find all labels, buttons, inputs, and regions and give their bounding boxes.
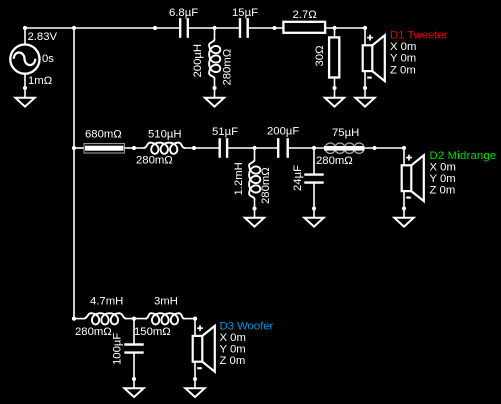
label V1 impedance 1mΩ	[28, 75, 52, 87]
node junction D3 corner	[193, 317, 197, 321]
svg-text:680mΩ: 680mΩ	[85, 129, 122, 141]
wire C5 stem bottom	[313, 183, 315, 218]
svg-text:200µF: 200µF	[267, 126, 299, 138]
node junction bottom corner	[72, 317, 76, 321]
wire mid rail segment 3	[185, 147, 220, 149]
label L3 resistance 280mΩ	[260, 167, 272, 204]
svg-text:2.7Ω: 2.7Ω	[293, 9, 317, 21]
svg-text:75µH: 75µH	[332, 127, 359, 139]
svg-text:6.8µF: 6.8µF	[169, 7, 198, 19]
svg-text:510µH: 510µH	[148, 129, 182, 141]
wire R2 stem bottom	[334, 78, 336, 98]
node junction V1 ground	[23, 86, 27, 90]
svg-text:24µF: 24µF	[292, 165, 304, 191]
label L6 resistance 150mΩ	[134, 326, 171, 338]
wire mid rail segment 2	[125, 147, 145, 149]
label R3 value 680mΩ	[85, 129, 122, 141]
svg-text:280mΩ: 280mΩ	[75, 326, 112, 338]
wire L1 stem bottom	[214, 78, 216, 98]
label L2 resistance 280mΩ	[136, 155, 173, 167]
ground below C6	[124, 388, 143, 397]
label C4 value 200µF	[267, 126, 299, 138]
svg-text:280mΩ: 280mΩ	[222, 49, 234, 86]
label C1 value 6.8µF	[169, 7, 198, 19]
wire D2 drop	[403, 148, 405, 166]
node junction D3 ground	[193, 377, 197, 381]
label D1 Y position	[390, 53, 416, 65]
node junction L2-C3	[192, 146, 196, 150]
node junction C1-L1	[212, 26, 216, 30]
wire V1 stem top	[24, 28, 26, 45]
ground below R2	[325, 98, 344, 107]
capacitor C4 200µF	[278, 138, 288, 158]
wire main feed vertical	[73, 28, 75, 319]
node junction R3-L2	[132, 146, 136, 150]
capacitor C6 100µF	[124, 345, 143, 353]
node junction L3 ground	[252, 206, 256, 210]
svg-text:2.83V: 2.83V	[28, 31, 58, 43]
node junction D2 ground	[402, 206, 406, 210]
label D3 X position	[220, 332, 246, 344]
capacitor C3 51µF	[220, 138, 227, 158]
ground below L3	[245, 218, 264, 227]
wire mid rail segment 1	[74, 147, 84, 149]
label L4 value 75µH	[332, 127, 359, 139]
svg-text:1mΩ: 1mΩ	[28, 75, 52, 87]
label D2 Midrange	[430, 150, 497, 162]
label R1 value 2.7Ω	[293, 9, 317, 21]
wire D2 stem bottom	[403, 191, 405, 218]
svg-text:Z 0m: Z 0m	[220, 355, 246, 367]
label C3 value 51µF	[212, 126, 238, 138]
node wire end before C1	[153, 26, 157, 30]
svg-text:D1 Tweeter: D1 Tweeter	[390, 30, 448, 42]
svg-text:280mΩ: 280mΩ	[316, 155, 353, 167]
capacitor C1 6.8µF	[180, 18, 188, 38]
inductor L4 75µH with series resistance	[324, 143, 364, 153]
svg-text:Y 0m: Y 0m	[220, 344, 246, 356]
label L4 resistance 280mΩ	[316, 155, 353, 167]
svg-text:Z 0m: Z 0m	[430, 184, 456, 196]
resistor R3 680mΩ	[84, 144, 125, 153]
inductor L1 200µH	[209, 40, 220, 79]
node junction L4-D2	[372, 146, 376, 150]
svg-text:280mΩ: 280mΩ	[136, 155, 173, 167]
node junction mid feed	[72, 146, 76, 150]
voltage source V1	[10, 45, 39, 74]
label V1 delay 0s	[42, 53, 54, 65]
svg-text:D3 Woofer: D3 Woofer	[220, 321, 274, 333]
svg-text:X 0m: X 0m	[390, 41, 416, 53]
node junction feed	[72, 26, 76, 30]
inductor L6 3mH	[146, 313, 184, 324]
wire D3 stem bottom	[194, 362, 196, 388]
node junction D1 top	[363, 26, 367, 30]
wire mid rail segment 5	[288, 147, 324, 149]
label L5 value 4.7mH	[90, 296, 123, 308]
label V1 value 2.83V	[28, 31, 58, 43]
resistor R2 30Ω	[329, 37, 339, 77]
speaker D1	[363, 35, 385, 81]
node junction L1 ground	[212, 86, 216, 90]
inductor L3 1.2mH	[249, 160, 260, 199]
wire L3 stem top	[254, 148, 256, 160]
svg-text:X 0m: X 0m	[220, 332, 246, 344]
wire R2 stem top	[334, 28, 336, 37]
svg-text:150mΩ: 150mΩ	[134, 326, 171, 338]
ground below D2	[394, 218, 413, 227]
capacitor C2 15µF	[240, 18, 248, 38]
wire D1 stem bottom	[364, 71, 366, 98]
label D1 X position	[390, 41, 416, 53]
label L2 value 510µH	[148, 129, 182, 141]
svg-text:1.2mH: 1.2mH	[233, 162, 245, 195]
node junction L5-L6	[132, 317, 136, 321]
label C6 value 100µF	[112, 333, 124, 365]
wire L3 stem bottom	[254, 199, 256, 218]
svg-text:Y 0m: Y 0m	[430, 173, 456, 185]
node junction C5 ground	[312, 206, 316, 210]
wire D1 stem top	[364, 28, 366, 46]
wire C6 stem top	[133, 319, 135, 345]
wire mid rail segment 4	[227, 147, 278, 149]
svg-text:Y 0m: Y 0m	[390, 53, 416, 65]
svg-text:100µF: 100µF	[112, 333, 124, 365]
node junction C4-C5	[312, 146, 316, 150]
svg-text:0s: 0s	[42, 53, 54, 65]
wire top rail segment 4	[325, 27, 365, 29]
node junction C3-L3	[252, 146, 256, 150]
svg-text:30Ω: 30Ω	[314, 45, 326, 66]
node junction D1 ground	[363, 86, 367, 90]
inductor L5 4.7mH	[84, 313, 126, 324]
node junction C6 ground	[132, 377, 136, 381]
wire bottom rail segment 3	[184, 318, 195, 320]
resistor R1 2.7Ω	[283, 22, 325, 33]
wire top rail segment 2	[188, 27, 240, 29]
label D2 Y position	[430, 173, 456, 185]
label D3 Y position	[220, 344, 246, 356]
svg-text:280mΩ: 280mΩ	[260, 167, 272, 204]
speaker D3	[193, 325, 215, 371]
svg-text:Z 0m: Z 0m	[390, 64, 416, 76]
svg-text:X 0m: X 0m	[430, 161, 456, 173]
wire bottom rail segment 1	[74, 318, 84, 320]
label D2 X position	[430, 161, 456, 173]
label L1 value 200µH	[192, 44, 204, 78]
label C2 value 15µF	[232, 7, 258, 19]
label D3 Z position	[220, 355, 246, 367]
label D1 Tweeter	[390, 30, 448, 42]
ground below D3	[185, 388, 204, 397]
wire top rail segment 3	[248, 27, 284, 29]
node junction C2-R1	[272, 26, 276, 30]
wire mid rail segment 6	[364, 147, 404, 149]
node junction R1-R2	[332, 26, 336, 30]
label D3 Woofer	[220, 321, 274, 333]
label L6 value 3mH	[154, 296, 178, 308]
label R2 value 30Ω	[314, 45, 326, 66]
speaker D2	[402, 155, 424, 201]
svg-text:200µH: 200µH	[192, 44, 204, 78]
svg-text:3mH: 3mH	[154, 296, 178, 308]
node junction D2 corner	[402, 146, 406, 150]
label L1 resistance 280mΩ	[222, 49, 234, 86]
ground below D1	[355, 98, 374, 107]
wire top rail segment 1	[25, 27, 180, 29]
svg-text:15µF: 15µF	[232, 7, 258, 19]
node junction V1 top	[23, 26, 27, 30]
svg-text:51µF: 51µF	[212, 126, 238, 138]
ground below C5	[304, 218, 323, 227]
inductor L2 510µH	[144, 143, 185, 154]
node junction R2 ground	[332, 86, 336, 90]
wire C6 stem bottom	[133, 353, 135, 389]
wire V1 stem bottom	[24, 74, 26, 98]
wire C5 stem top	[313, 148, 315, 175]
label D1 Z position	[390, 64, 416, 76]
ground below L1	[205, 98, 224, 107]
svg-text:D2 Midrange: D2 Midrange	[430, 150, 497, 162]
label L3 value 1.2mH	[233, 162, 245, 195]
label C5 value 24µF	[292, 165, 304, 191]
wire D3 drop	[194, 319, 196, 337]
wire L1 stem top	[214, 28, 216, 40]
ground below V1	[15, 98, 34, 107]
label L5 resistance 280mΩ	[75, 326, 112, 338]
capacitor C5 24µF	[304, 175, 323, 183]
wire bottom rail segment 2	[126, 318, 146, 320]
svg-text:4.7mH: 4.7mH	[90, 296, 123, 308]
label D2 Z position	[430, 184, 456, 196]
